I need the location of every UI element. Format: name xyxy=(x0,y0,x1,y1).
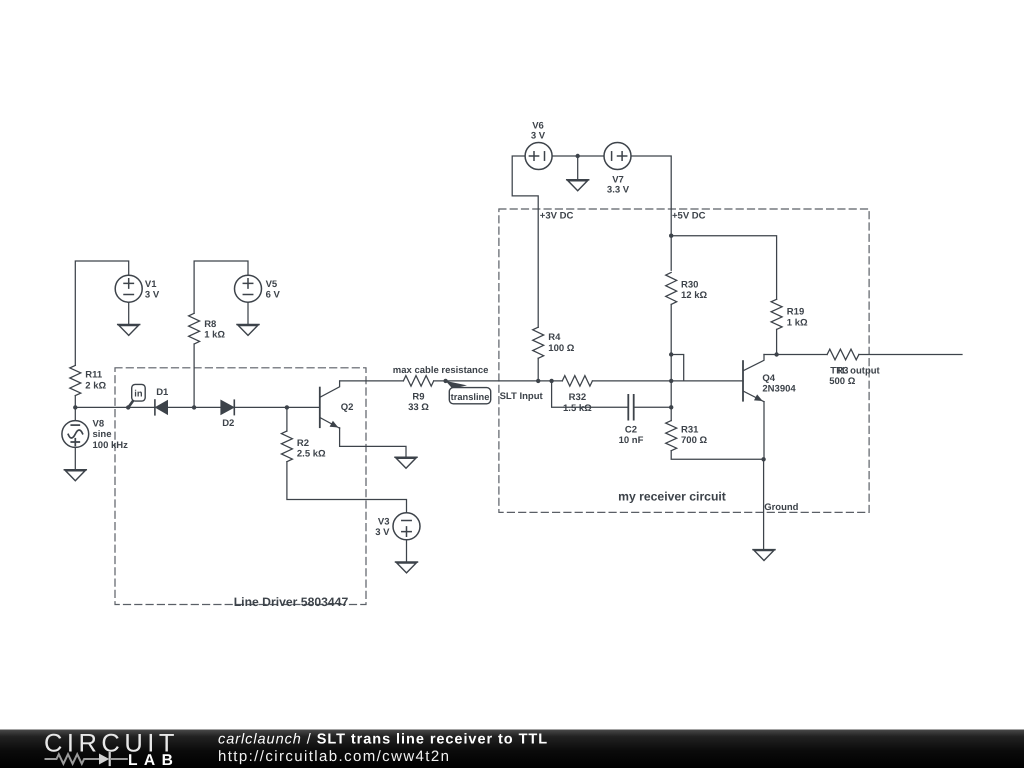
node R30 bottom junction xyxy=(669,352,673,356)
svg-text:LAB: LAB xyxy=(128,752,179,768)
R8 labels xyxy=(204,319,225,341)
V7 labels xyxy=(607,174,630,195)
R19 labels xyxy=(787,307,808,329)
R4 labels xyxy=(548,332,574,354)
svg-text:R8: R8 xyxy=(204,319,216,330)
node R8/D1/D2 junction xyxy=(192,405,196,409)
svg-text:10 nF: 10 nF xyxy=(619,435,644,446)
svg-text:+3V DC: +3V DC xyxy=(540,211,574,222)
svg-text:6 V: 6 V xyxy=(266,290,281,301)
ground under V1 xyxy=(118,325,140,336)
svg-text:Line Driver 5803447: Line Driver 5803447 xyxy=(234,595,349,609)
wire V1 top to R11 top xyxy=(75,261,128,365)
R32 labels xyxy=(563,392,592,414)
svg-text:R30: R30 xyxy=(681,279,698,290)
wire V6 to V7 with ground tap xyxy=(552,155,604,157)
wire V3 bottom to ground xyxy=(406,540,408,562)
voltage source V5 (6 V) xyxy=(235,275,262,302)
wire R2 top lead xyxy=(286,407,288,431)
resistor R8 xyxy=(189,313,200,344)
footer bar xyxy=(0,730,1024,768)
V3 labels xyxy=(375,517,390,539)
svg-text:V3: V3 xyxy=(378,517,390,528)
svg-text:R9: R9 xyxy=(412,391,424,402)
wire V6 negative to +3V DC net xyxy=(512,156,538,327)
D2 label xyxy=(222,418,234,429)
V1 labels xyxy=(145,279,160,301)
wire +5V branch to R19 xyxy=(671,236,776,300)
resistor R2 xyxy=(281,431,292,462)
wire V8 bottom to ground xyxy=(74,447,76,470)
flag "in" xyxy=(128,384,145,407)
ground under V8 xyxy=(64,470,86,481)
V8 labels xyxy=(93,418,129,450)
wire R11 bottom lead xyxy=(74,396,76,408)
Q2 label xyxy=(341,402,354,413)
node in-flag junction xyxy=(126,405,130,409)
V6 labels xyxy=(531,121,546,142)
node V8/R11 junction xyxy=(73,405,77,409)
node R2/Q2 base junction xyxy=(285,405,289,409)
resistor R30 xyxy=(666,272,677,304)
svg-text:3 V: 3 V xyxy=(145,290,160,301)
C2 labels xyxy=(619,424,644,446)
svg-text:2.5 kΩ: 2.5 kΩ xyxy=(297,449,326,460)
svg-text:33 Ω: 33 Ω xyxy=(408,402,429,413)
svg-text:Q4: Q4 xyxy=(762,373,775,384)
svg-text:100 Ω: 100 Ω xyxy=(548,343,574,354)
R3 labels xyxy=(829,366,855,388)
svg-text:V5: V5 xyxy=(266,279,278,290)
resistor R11 xyxy=(70,365,81,395)
ground between V6 and V7 xyxy=(567,180,589,191)
node label TTL output xyxy=(830,366,880,377)
svg-text:D1: D1 xyxy=(156,387,169,398)
svg-text:R4: R4 xyxy=(548,332,561,343)
svg-text:R11: R11 xyxy=(85,370,103,381)
CircuitLab logo wordmark xyxy=(44,729,179,768)
svg-text:V8: V8 xyxy=(93,418,105,429)
D1 label xyxy=(156,387,169,398)
V5 labels xyxy=(266,279,281,301)
resistor R9 xyxy=(403,376,433,387)
diode D2 (cathode right) xyxy=(221,400,235,414)
resistor R3 xyxy=(827,349,859,360)
svg-text:+5V DC: +5V DC xyxy=(672,211,706,222)
R2 labels xyxy=(297,438,326,460)
svg-text:TTL output: TTL output xyxy=(830,366,880,377)
footer url xyxy=(218,748,450,765)
wire V8 top lead xyxy=(74,407,76,422)
Q4 emitter lead xyxy=(763,402,765,460)
node R4 bottom junction xyxy=(536,379,540,383)
svg-text:R31: R31 xyxy=(681,424,699,435)
logo resistor-diode glyph xyxy=(46,753,127,765)
line driver box caption xyxy=(234,595,349,609)
resistor R19 xyxy=(771,299,782,329)
resistor R32 xyxy=(562,376,592,387)
svg-text:C2: C2 xyxy=(625,424,637,435)
Ground net label xyxy=(764,502,798,513)
node emitter/R31 junction xyxy=(761,457,765,461)
svg-text:sine: sine xyxy=(93,429,112,440)
R9 name label: max cable resistance xyxy=(393,365,489,376)
node V6/V7 ground junction xyxy=(576,154,580,158)
node R19/collector junction xyxy=(774,352,778,356)
wire R30 bottom to R31 top column xyxy=(670,304,672,420)
transistor Q2 xyxy=(320,381,340,428)
wire main line: Q2 collector - R9 - SLT Input - R32 - Q4 base xyxy=(340,380,743,382)
net label SLT Input xyxy=(500,391,544,402)
svg-text:R2: R2 xyxy=(297,438,309,449)
R9 labels xyxy=(408,391,429,413)
line driver dashed box xyxy=(115,368,366,605)
svg-text:1 kΩ: 1 kΩ xyxy=(204,330,225,341)
voltage source V3 (3 V, plus bottom) xyxy=(393,513,420,540)
footer title xyxy=(218,731,548,747)
wire R8 bottom lead xyxy=(193,344,195,407)
ground under V3 xyxy=(396,562,418,573)
wire collector output line (TTL output net) xyxy=(764,354,962,356)
voltage source V1 (3 V) xyxy=(115,275,142,302)
R11 labels xyxy=(85,370,106,392)
node transline junction xyxy=(443,379,447,383)
wire R31 bottom to Q4 emitter xyxy=(671,451,763,460)
svg-text:2 kΩ: 2 kΩ xyxy=(85,380,106,391)
svg-text:transline: transline xyxy=(451,392,490,402)
svg-text:700 Ω: 700 Ω xyxy=(681,435,707,446)
resistor R31 xyxy=(666,421,677,451)
R31 labels xyxy=(681,424,707,446)
ground under V5 xyxy=(237,325,259,336)
net label +3V DC xyxy=(540,211,574,222)
R30 labels xyxy=(681,279,707,301)
ground at receiver bottom (Ground net) xyxy=(753,550,775,561)
svg-text:carlclaunch / SLT trans line r: carlclaunch / SLT trans line receiver to… xyxy=(218,731,548,747)
wire step from R30 node to base line xyxy=(671,355,684,381)
svg-text:V1: V1 xyxy=(145,279,157,290)
svg-text:100 kHz: 100 kHz xyxy=(93,440,129,451)
wire V1 bottom to ground xyxy=(128,302,130,325)
receiver box caption xyxy=(618,490,726,504)
Q4 labels xyxy=(762,373,796,394)
svg-text:3.3 V: 3.3 V xyxy=(607,184,630,195)
node C2 branch junction xyxy=(549,379,553,383)
wire V7 to +5V DC net xyxy=(631,156,671,270)
resistor R4 xyxy=(533,327,544,358)
svg-text:R19: R19 xyxy=(787,307,804,318)
svg-text:in: in xyxy=(134,389,143,399)
wire R4 bottom lead xyxy=(537,358,539,381)
svg-text:max cable resistance: max cable resistance xyxy=(393,365,489,376)
node C2/R31 junction xyxy=(669,405,673,409)
svg-text:R32: R32 xyxy=(569,392,586,403)
wire Q2 emitter to ground xyxy=(340,428,406,458)
svg-text:12 kΩ: 12 kΩ xyxy=(681,290,707,301)
wire V5 bottom to ground xyxy=(247,302,249,325)
diode D1 (cathode left) xyxy=(155,400,168,415)
svg-text:3 V: 3 V xyxy=(375,527,390,538)
svg-text:http://circuitlab.com/cww4t2n: http://circuitlab.com/cww4t2n xyxy=(218,748,450,765)
wire V5 top to R8 top xyxy=(194,261,248,313)
svg-text:my receiver circuit: my receiver circuit xyxy=(618,490,726,504)
node base line junction xyxy=(669,379,673,383)
transistor Q4 xyxy=(743,355,764,402)
wire R19 bottom lead xyxy=(776,329,778,354)
wire R2 bottom to V3 xyxy=(287,462,407,513)
svg-text:SLT Input: SLT Input xyxy=(500,391,544,402)
svg-text:Q2: Q2 xyxy=(341,402,354,413)
svg-text:1.5 kΩ: 1.5 kΩ xyxy=(563,403,592,414)
wire ground lead of V6/V7 node xyxy=(577,156,579,180)
wire Q4 emitter to Ground symbol xyxy=(763,459,765,549)
net label +5V DC xyxy=(672,211,706,222)
svg-text:Ground: Ground xyxy=(764,502,798,513)
capacitor C2 xyxy=(628,395,633,420)
flag "transline" xyxy=(446,381,491,404)
svg-text:D2: D2 xyxy=(222,418,234,429)
receiver dashed box xyxy=(499,209,869,512)
node +5V junction xyxy=(669,234,673,238)
ground at Q2 emitter xyxy=(395,457,417,468)
voltage source V7 (3.3 V, plus right) xyxy=(604,143,631,170)
wire C2 branch xyxy=(552,381,672,407)
svg-text:3 V: 3 V xyxy=(531,131,546,142)
svg-text:2N3904: 2N3904 xyxy=(762,383,796,394)
svg-text:500 Ω: 500 Ω xyxy=(829,376,855,387)
voltage source V6 (3 V, plus left) xyxy=(525,143,552,170)
svg-text:1 kΩ: 1 kΩ xyxy=(787,317,808,328)
sine voltage source V8 xyxy=(62,421,89,448)
wire input line: V8 node - D1 - D2 - Q2 base xyxy=(75,406,319,408)
